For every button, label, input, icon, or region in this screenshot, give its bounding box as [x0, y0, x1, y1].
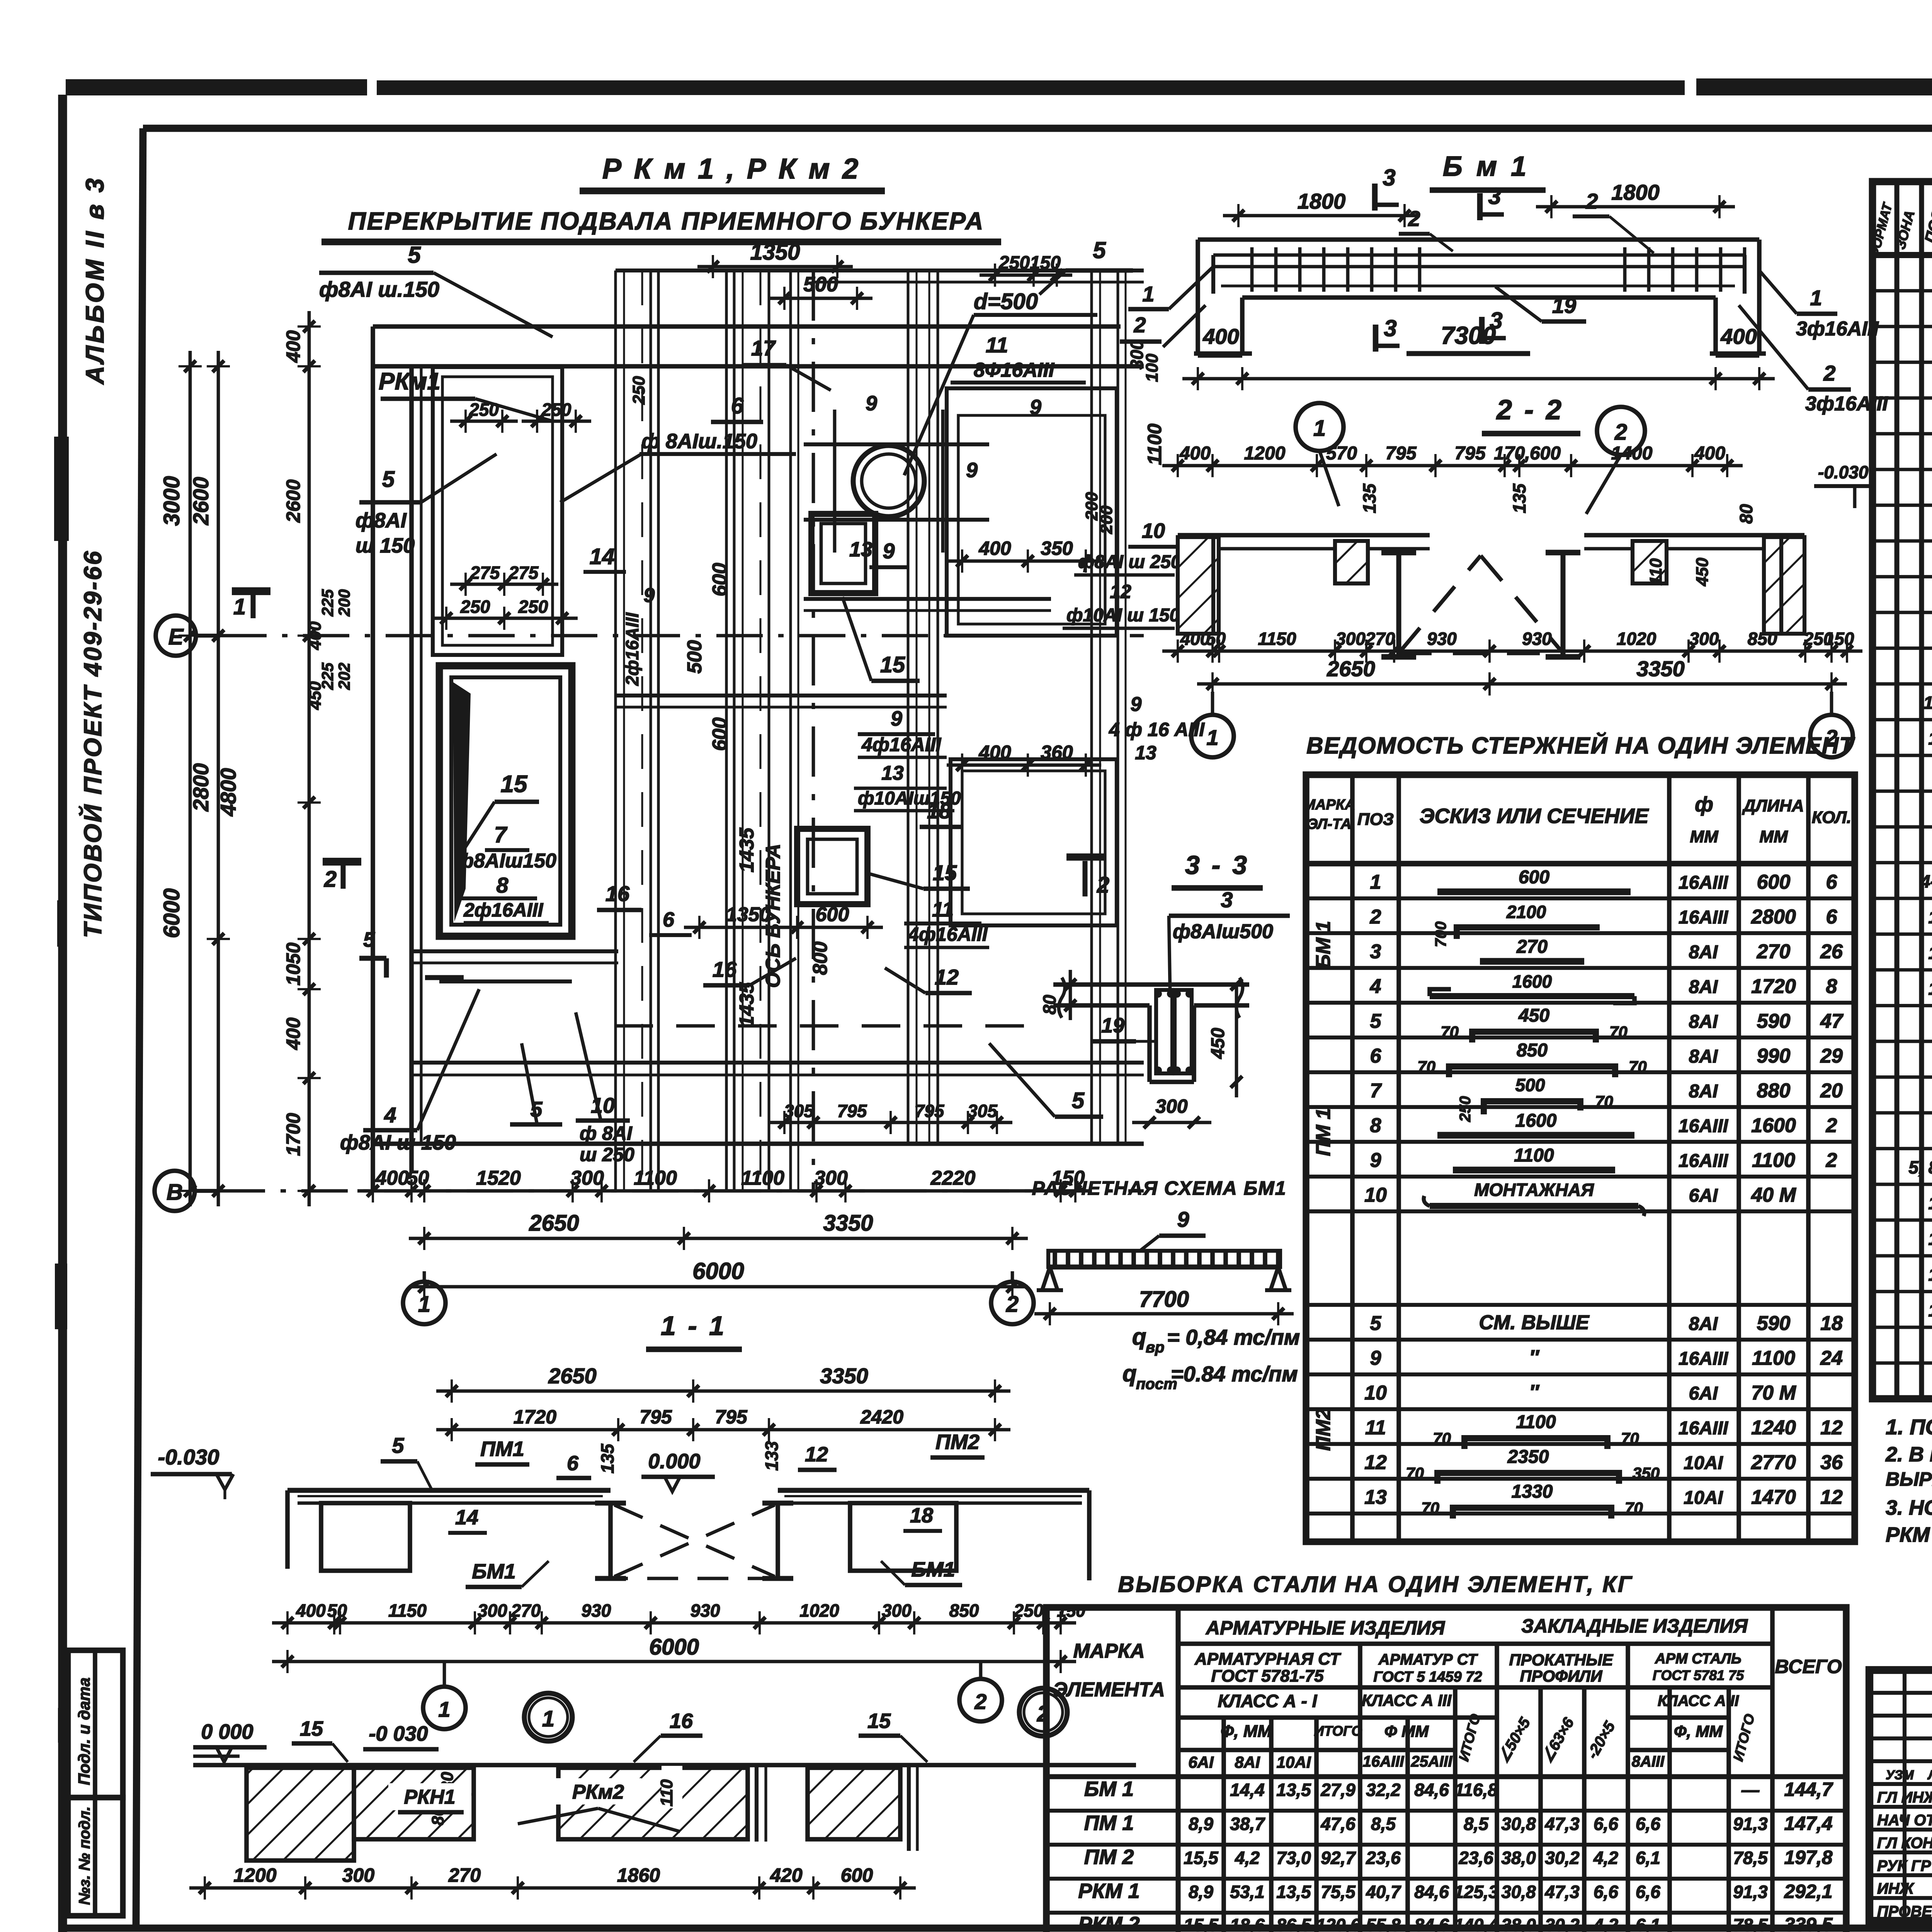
svg-text:930: 930	[1522, 629, 1552, 649]
svg-text:2800: 2800	[189, 763, 213, 812]
svg-text:ПРОФИЛИ: ПРОФИЛИ	[1520, 1667, 1603, 1685]
svg-text:2600: 2600	[189, 477, 213, 526]
svg-text:600: 600	[1530, 443, 1561, 464]
svg-text:3350: 3350	[820, 1364, 868, 1388]
svg-text:1600: 1600	[1512, 971, 1552, 992]
svg-text:ПМ2: ПМ2	[935, 1430, 980, 1454]
svg-text:70: 70	[1621, 1429, 1639, 1447]
svg-text:СМ. ВЫШЕ: СМ. ВЫШЕ	[1479, 1311, 1590, 1334]
svg-text:1100: 1100	[1752, 1347, 1795, 1369]
svg-text:6000: 6000	[649, 1634, 699, 1660]
svg-text:2 - 2: 2 - 2	[1496, 395, 1564, 425]
svg-text:32,2: 32,2	[1366, 1780, 1401, 1800]
section 2-2 center pit dashed	[1396, 553, 1401, 657]
svg-text:2600: 2600	[282, 480, 304, 523]
svg-text:ГЛ ИНЖ.ПР: ГЛ ИНЖ.ПР	[1877, 1789, 1932, 1806]
svg-text:6АI: 6АI	[1188, 1753, 1214, 1771]
svg-text:450: 450	[1208, 1028, 1228, 1059]
выборка grid	[1046, 1607, 1846, 1932]
svg-text:500: 500	[1515, 1075, 1545, 1095]
svg-text:600: 600	[841, 1864, 873, 1886]
svg-text:78,5: 78,5	[1733, 1848, 1768, 1868]
svg-text:300: 300	[570, 1167, 604, 1189]
plan rebar rect top right	[947, 388, 1117, 636]
svg-text:1435: 1435	[736, 982, 758, 1027]
svg-text:795: 795	[639, 1406, 672, 1428]
svg-text:2. В МЕСТАХ ТЕХНОЛОГИЧЕСКИХ: 2. В МЕСТАХ ТЕХНОЛОГИЧЕСКИХ ОТВЕРСТИЙ СЕ…	[1885, 1442, 1932, 1466]
svg-text:ГЛ КОНСТР: ГЛ КОНСТР	[1877, 1835, 1932, 1852]
svg-text:РКм2: РКм2	[572, 1781, 624, 1803]
svg-text:РАСЧЕТНАЯ СХЕМА БМ1: РАСЧЕТНАЯ СХЕМА БМ1	[1032, 1177, 1286, 1199]
svg-text:73,0: 73,0	[1276, 1848, 1311, 1868]
svg-text:6: 6	[1826, 906, 1838, 928]
svg-text:850: 850	[1748, 629, 1777, 649]
section 2-2 dims 2650 3350	[1197, 682, 1847, 686]
svg-text:14,4: 14,4	[1230, 1780, 1265, 1800]
svg-text:ММ: ММ	[1690, 827, 1719, 846]
svg-text:144,7: 144,7	[1784, 1779, 1833, 1800]
svg-text:420: 420	[770, 1864, 803, 1886]
svg-text:3. НОРМАТИВНАЯ ВРЕМЕННАЯ НАГ: 3. НОРМАТИВНАЯ ВРЕМЕННАЯ НАГРУЗКА НА ПЕР…	[1886, 1496, 1932, 1519]
svg-text:2650: 2650	[529, 1211, 579, 1236]
svg-text:18: 18	[1928, 1300, 1932, 1320]
svg-text:6,6: 6,6	[1594, 1882, 1618, 1902]
svg-text:КОЛ.: КОЛ.	[1812, 808, 1852, 827]
svg-text:11: 11	[932, 898, 954, 921]
svg-text:200: 200	[1097, 505, 1116, 534]
svg-text:300: 300	[1689, 629, 1719, 649]
svg-text:880: 880	[1757, 1080, 1791, 1102]
plan dim 6000	[409, 1285, 1028, 1289]
svg-text:24: 24	[1820, 1347, 1843, 1369]
inner drawing frame	[143, 125, 1932, 132]
svg-text:16АIII: 16АIII	[1679, 1116, 1729, 1136]
svg-text:70 М: 70 М	[1751, 1382, 1796, 1404]
svg-text:990: 990	[1757, 1045, 1791, 1067]
svg-text:30,8: 30,8	[1501, 1882, 1536, 1902]
svg-text:ПРОКАТНЫЕ: ПРОКАТНЫЕ	[1509, 1651, 1614, 1669]
svg-text:91,3: 91,3	[1733, 1882, 1768, 1902]
svg-text:400: 400	[282, 330, 304, 363]
svg-text:70: 70	[1609, 1023, 1628, 1041]
svg-text:150: 150	[1825, 629, 1854, 649]
svg-text:50: 50	[407, 1167, 429, 1189]
plan: left dimension chain 400/1050/400/1700	[308, 311, 311, 1206]
svg-text:250: 250	[469, 400, 499, 420]
svg-text:0.000: 0.000	[648, 1450, 700, 1473]
svg-text:6000: 6000	[159, 888, 184, 938]
svg-text:РКН1: РКН1	[404, 1786, 455, 1808]
svg-text:1100: 1100	[1752, 1149, 1795, 1172]
svg-text:15: 15	[880, 652, 905, 677]
svg-text:1100: 1100	[634, 1167, 677, 1189]
svg-text:275: 275	[470, 563, 500, 583]
svg-text:27,9: 27,9	[1320, 1780, 1355, 1800]
Бм1 dim 1800 right	[1536, 205, 1735, 209]
section mark 1 up (left)	[232, 587, 270, 595]
svg-text:q: q	[1122, 1361, 1137, 1386]
Бм1 inner rebar lines	[1213, 253, 1745, 257]
схема supports	[1037, 1267, 1063, 1290]
svg-text:Подл. и дата: Подл. и дата	[75, 1677, 93, 1785]
svg-text:7300: 7300	[1441, 321, 1496, 349]
svg-text:16АIII: 16АIII	[1679, 907, 1729, 928]
svg-text:4800: 4800	[216, 768, 240, 817]
svg-text:АРМАТУРНАЯ СТ: АРМАТУРНАЯ СТ	[1194, 1650, 1341, 1668]
svg-text:13: 13	[1135, 742, 1156, 764]
svg-text:3350: 3350	[1636, 656, 1685, 681]
svg-text:1200: 1200	[1244, 443, 1286, 464]
svg-text:КЛАСС А - I: КЛАСС А - I	[1218, 1691, 1318, 1711]
svg-text:3ф16АIII: 3ф16АIII	[1796, 318, 1879, 340]
svg-text:6: 6	[731, 393, 744, 418]
svg-text:1350: 1350	[726, 903, 771, 926]
svg-text:12: 12	[1110, 581, 1131, 602]
svg-text:ВЕДОМОСТЬ СТЕРЖНЕЙ НА ОДИН: ВЕДОМОСТЬ СТЕРЖНЕЙ НА ОДИН ЭЛЕМЕНТ	[1306, 732, 1855, 759]
svg-text:140,4: 140,4	[1454, 1915, 1498, 1932]
svg-text:16АIII: 16АIII	[1679, 872, 1729, 893]
svg-text:850: 850	[1517, 1040, 1548, 1061]
plan circle opening d500	[853, 446, 924, 517]
svg-text:275: 275	[509, 563, 539, 583]
svg-text:3 - 3: 3 - 3	[1185, 850, 1249, 880]
svg-text:1020: 1020	[1617, 629, 1656, 649]
svg-text:2: 2	[1585, 189, 1598, 213]
scan blobs on left border	[54, 437, 69, 541]
svg-text:135: 135	[597, 1443, 617, 1473]
svg-text:400: 400	[978, 537, 1011, 559]
svg-text:16: 16	[670, 1709, 693, 1733]
svg-text:РКМ 1, РКМ2 ПРИНЯТА 400 КГС: РКМ 1, РКМ2 ПРИНЯТА 400 КГС/М²	[1886, 1523, 1932, 1546]
svg-text:4,2: 4,2	[1593, 1915, 1618, 1932]
svg-text:400: 400	[1179, 443, 1211, 464]
svg-text:26: 26	[1820, 940, 1843, 963]
svg-text:5: 5	[408, 242, 421, 268]
svg-text:ЭЛЕМЕНТА: ЭЛЕМЕНТА	[1053, 1679, 1165, 1701]
svg-text:4-10: 4-10	[1920, 871, 1932, 891]
svg-text:78,5: 78,5	[1733, 1915, 1768, 1932]
svg-text:55,8: 55,8	[1366, 1915, 1401, 1932]
svg-text:400: 400	[1202, 324, 1239, 349]
svg-text:11: 11	[986, 333, 1008, 357]
svg-text:БМ 1: БМ 1	[1084, 1777, 1134, 1801]
svg-text:12: 12	[805, 1443, 828, 1466]
section 2-2 top dims	[1162, 464, 1743, 468]
svg-text:9: 9	[1370, 1347, 1381, 1369]
grid axis Е dash-dot	[220, 634, 1144, 638]
svg-text:8: 8	[1826, 975, 1837, 998]
svg-text:75,5: 75,5	[1321, 1882, 1356, 1902]
svg-text:110: 110	[1646, 558, 1665, 585]
svg-text:1350: 1350	[750, 240, 800, 265]
1-1 slab drawing	[287, 1488, 611, 1493]
svg-text:17: 17	[751, 336, 776, 360]
svg-text:-0 030: -0 030	[369, 1722, 428, 1745]
section 2-2 slab left	[1178, 533, 1430, 537]
svg-text:7: 7	[1370, 1080, 1382, 1102]
detail circles 1 2 double	[524, 1693, 572, 1741]
svg-text:38,0: 38,0	[1501, 1915, 1536, 1932]
1-1 top dims 2650/3350	[436, 1389, 1010, 1393]
svg-text:1: 1	[1206, 725, 1218, 750]
svg-text:ПОЗ: ПОЗ	[1357, 810, 1394, 829]
svg-text:1100: 1100	[1514, 1145, 1554, 1166]
Бм1 beam outline	[1198, 237, 1759, 242]
svg-text:795: 795	[1454, 443, 1486, 464]
1-1 dim 6000	[272, 1660, 1076, 1663]
svg-text:1520: 1520	[476, 1167, 521, 1189]
svg-text:84,6: 84,6	[1414, 1882, 1449, 1902]
plan top right slab lines	[811, 269, 1144, 272]
svg-text:ММ: ММ	[1759, 827, 1788, 846]
plan bottom dashed + lines	[614, 1024, 1024, 1028]
svg-text:2: 2	[1006, 1292, 1019, 1317]
svg-text:38,7: 38,7	[1230, 1814, 1265, 1834]
svg-text:40 М: 40 М	[1751, 1184, 1796, 1206]
svg-text:5: 5	[1093, 237, 1106, 263]
plan right wall verticals	[907, 270, 910, 1144]
svg-text:16: 16	[1928, 1229, 1932, 1249]
sheet outer border	[58, 95, 67, 1932]
svg-text:3: 3	[1370, 940, 1381, 963]
svg-text:10: 10	[1364, 1184, 1387, 1206]
plan cross lines through circle	[804, 442, 989, 446]
svg-text:13: 13	[849, 538, 872, 561]
svg-text:ВЫБОРКА СТАЛИ НА ОДИН: ВЫБОРКА СТАЛИ НА ОДИН ЭЛЕМЕНТ, КГ	[1118, 1572, 1633, 1597]
plan bottom edge	[373, 1141, 1144, 1146]
svg-text:1: 1	[1810, 286, 1822, 310]
plan big opening 15	[439, 666, 572, 936]
svg-text:ф8АI ш 250: ф8АI ш 250	[1078, 552, 1181, 572]
svg-text:8,5: 8,5	[1371, 1814, 1396, 1834]
svg-text:12: 12	[1820, 1486, 1843, 1509]
plan dim 2650/3350	[409, 1237, 1028, 1240]
svg-text:2770: 2770	[1751, 1451, 1796, 1474]
Бм1 section mark 3 bottom	[1373, 325, 1379, 352]
svg-text:МАРКА: МАРКА	[1073, 1640, 1145, 1662]
svg-text:1150: 1150	[388, 1600, 427, 1621]
1-1 bottom dim chain	[272, 1621, 1076, 1625]
svg-text:2: 2	[974, 1689, 986, 1714]
svg-text:15,5: 15,5	[1184, 1915, 1219, 1932]
svg-text:6: 6	[567, 1452, 579, 1475]
svg-text:250: 250	[1014, 1600, 1044, 1621]
svg-text:Е: Е	[168, 624, 184, 650]
svg-text:36: 36	[1820, 1451, 1843, 1474]
svg-text:ПМ1: ПМ1	[480, 1437, 524, 1461]
plan dim 400/350	[947, 560, 1101, 563]
svg-text:ЭСКИЗ ИЛИ СЕЧЕНИЕ: ЭСКИЗ ИЛИ СЕЧЕНИЕ	[1420, 804, 1649, 828]
corner bar dots	[1154, 990, 1162, 998]
svg-text:197,8: 197,8	[1784, 1847, 1832, 1868]
svg-text:400: 400	[306, 621, 325, 650]
svg-text:38,0: 38,0	[1501, 1848, 1536, 1868]
section 3-3 web	[1147, 1005, 1152, 1082]
svg-text:2: 2	[1614, 420, 1627, 445]
svg-text:16АIII: 16АIII	[1679, 1418, 1729, 1439]
svg-text:50: 50	[327, 1600, 347, 1621]
svg-text:270: 270	[1757, 940, 1791, 963]
svg-text:НАЧ ОТД: НАЧ ОТД	[1877, 1812, 1932, 1829]
svg-text:70: 70	[1625, 1499, 1643, 1517]
1-1 центр dashed X	[608, 1503, 613, 1580]
svg-text:1 - 1: 1 - 1	[661, 1311, 726, 1341]
plan dims 400/360 right	[947, 764, 1101, 767]
svg-text:400: 400	[282, 1017, 304, 1050]
plan bottom dim row	[357, 1189, 1091, 1193]
svg-text:БМ1: БМ1	[472, 1560, 515, 1583]
Бм1 stirrup verticals left	[1250, 247, 1254, 292]
grid circle В	[155, 1171, 195, 1211]
plan upper plate РКм1 outline	[433, 367, 562, 655]
svg-text:ф 8АIш.150: ф 8АIш.150	[641, 430, 757, 453]
svg-text:450: 450	[306, 681, 325, 710]
section 2-2 right slab	[1584, 533, 1804, 537]
svg-text:9: 9	[883, 539, 895, 563]
svg-text:2: 2	[1133, 313, 1146, 337]
svg-text:300: 300	[882, 1600, 912, 1621]
svg-text:3350: 3350	[823, 1211, 873, 1236]
svg-text:400: 400	[375, 1167, 409, 1189]
plan dim 250/150 top right	[980, 274, 1072, 277]
svg-text:15: 15	[300, 1717, 323, 1740]
svg-text:500: 500	[803, 273, 838, 296]
detail bottom dims	[189, 1886, 916, 1890]
top black bar	[66, 79, 367, 95]
svg-text:ш 150: ш 150	[355, 534, 415, 557]
svg-text:70: 70	[1406, 1464, 1424, 1482]
section 3-3 mark 2 up	[1066, 854, 1104, 861]
svg-text:1100: 1100	[741, 1167, 784, 1189]
svg-text:300: 300	[478, 1600, 507, 1621]
svg-text:125,3: 125,3	[1454, 1882, 1498, 1902]
plan grid circle 1	[403, 1282, 446, 1324]
svg-text:1100: 1100	[1144, 423, 1165, 465]
svg-text:600: 600	[709, 718, 731, 751]
svg-text:АРМАТУР СТ: АРМАТУР СТ	[1378, 1651, 1478, 1668]
svg-text:15: 15	[501, 771, 528, 798]
svg-text:ГОСТ 5781 75: ГОСТ 5781 75	[1653, 1667, 1744, 1683]
svg-text:850: 850	[949, 1600, 979, 1621]
svg-text:70: 70	[1417, 1058, 1435, 1076]
svg-text:23,6: 23,6	[1458, 1848, 1493, 1868]
svg-text:2: 2	[324, 867, 337, 892]
svg-text:2350: 2350	[1507, 1447, 1549, 1467]
Бм1 stirrup verticals right	[1623, 247, 1627, 292]
svg-text:16: 16	[713, 957, 737, 981]
svg-text:9: 9	[1177, 1207, 1189, 1231]
svg-text:270: 270	[1365, 629, 1395, 649]
svg-text:300: 300	[342, 1864, 375, 1886]
svg-text:1720: 1720	[1751, 975, 1796, 998]
svg-text:2100: 2100	[1506, 902, 1546, 922]
svg-text:ВЫРЕЗАТЬ ПО МЕСТУ.: ВЫРЕЗАТЬ ПО МЕСТУ.	[1886, 1468, 1932, 1490]
svg-text:7700: 7700	[1139, 1287, 1189, 1312]
svg-text:270: 270	[1516, 937, 1548, 957]
svg-text:930: 930	[1427, 629, 1457, 649]
svg-text:АРМ СТАЛЬ: АРМ СТАЛЬ	[1655, 1651, 1742, 1667]
plan square opening 2	[797, 829, 867, 904]
svg-text:9: 9	[1370, 1149, 1381, 1172]
svg-text:ф8АIш150: ф8АIш150	[456, 850, 556, 872]
svg-text:700: 700	[1432, 922, 1449, 947]
svg-text:8АI: 8АI	[1689, 1046, 1718, 1067]
svg-text:1: 1	[1142, 282, 1154, 306]
svg-text:1435: 1435	[736, 827, 758, 872]
plan dim 250/250 small	[450, 420, 518, 423]
svg-text:КЛАСС А III: КЛАСС А III	[1362, 1691, 1452, 1709]
svg-text:91,3: 91,3	[1733, 1814, 1768, 1834]
svg-text:600: 600	[709, 563, 731, 597]
svg-text:590: 590	[1757, 1312, 1791, 1335]
svg-text:120,6: 120,6	[1316, 1915, 1361, 1932]
svg-text:ГОСТ 5781-75: ГОСТ 5781-75	[1211, 1667, 1324, 1685]
svg-text:8АI: 8АI	[1689, 942, 1718, 963]
svg-text:250: 250	[629, 376, 648, 405]
svg-text:1240: 1240	[1751, 1417, 1796, 1439]
svg-text:135: 135	[1509, 483, 1529, 513]
svg-text:РКМ 1: РКМ 1	[1078, 1879, 1139, 1903]
svg-text:1800: 1800	[1611, 180, 1660, 204]
svg-text:18: 18	[1820, 1312, 1843, 1335]
svg-text:РКМ 2: РКМ 2	[1078, 1913, 1139, 1932]
section 2-2 bottom dims	[1162, 650, 1862, 653]
svg-text:5: 5	[382, 467, 395, 492]
detail slab top line	[193, 1763, 1136, 1767]
svg-text:400: 400	[1694, 443, 1725, 464]
svg-text:БМ 1: БМ 1	[1312, 921, 1335, 969]
svg-text:250: 250	[518, 597, 548, 617]
svg-text:84,6: 84,6	[1414, 1915, 1449, 1932]
svg-text:8АI: 8АI	[1689, 1012, 1718, 1032]
svg-text:6: 6	[1370, 1045, 1382, 1067]
svg-text:14: 14	[590, 544, 615, 569]
svg-text:13,5: 13,5	[1276, 1780, 1311, 1800]
svg-text:6000: 6000	[692, 1258, 744, 1284]
title block left grid	[1869, 1691, 1932, 1695]
svg-text:9: 9	[1131, 693, 1142, 716]
title block frame	[1869, 1670, 1932, 1921]
section 2-2 circle 1	[1296, 403, 1344, 451]
svg-text:80: 80	[1736, 504, 1756, 524]
svg-text:ЗАКЛАДНЫЕ ИЗДЕЛИЯ: ЗАКЛАДНЫЕ ИЗДЕЛИЯ	[1521, 1615, 1748, 1637]
svg-text:25АIII: 25АIII	[1411, 1753, 1453, 1770]
svg-text:10АI: 10АI	[1684, 1453, 1723, 1473]
svg-text:16: 16	[1928, 978, 1932, 998]
svg-text:8,5: 8,5	[1464, 1814, 1489, 1834]
svg-text:4,2: 4,2	[1235, 1848, 1260, 1868]
svg-text:250: 250	[1457, 1096, 1474, 1122]
svg-text:19: 19	[1552, 293, 1576, 318]
svg-text:10АI: 10АI	[1684, 1488, 1723, 1508]
svg-text:ГОСТ 5 1459 72: ГОСТ 5 1459 72	[1373, 1669, 1482, 1685]
svg-text:250: 250	[460, 597, 490, 617]
svg-text:ТИПОВОЙ ПРОЕКТ 409-29-66: ТИПОВОЙ ПРОЕКТ 409-29-66	[78, 549, 107, 938]
svg-text:ф8АI ш.150: ф8АI ш.150	[319, 277, 439, 301]
svg-text:47,3: 47,3	[1544, 1814, 1580, 1834]
svg-text:16АIII: 16АIII	[1679, 1349, 1729, 1369]
svg-text:—: —	[1741, 1780, 1760, 1800]
svg-text:450: 450	[1518, 1005, 1549, 1026]
svg-text:3: 3	[1383, 165, 1395, 190]
svg-text:250: 250	[541, 400, 571, 420]
svg-text:2220: 2220	[930, 1167, 976, 1189]
svg-text:6АI: 6АI	[1689, 1185, 1718, 1206]
svg-text:6,1: 6,1	[1636, 1915, 1660, 1932]
svg-text:135: 135	[1359, 483, 1379, 513]
svg-text:ВСЕГО: ВСЕГО	[1775, 1656, 1842, 1677]
svg-text:2650: 2650	[1327, 656, 1375, 681]
